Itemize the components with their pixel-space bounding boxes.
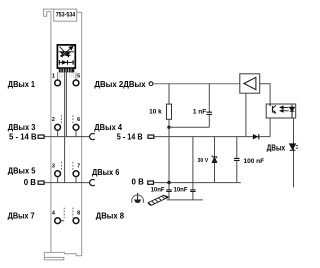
- diode D2: [253, 134, 258, 139]
- channel stub row2 left: [60, 115, 62, 124]
- protection diode D6 cathode bar: [67, 60, 69, 65]
- wire C1 bottom to junction: [169, 126, 209, 128]
- status LED D4 cathode bar: [60, 54, 64, 56]
- protective earth symbol: [132, 193, 144, 203]
- terminal 3: [55, 171, 61, 177]
- terminal 6 wire to rail: [75, 131, 77, 137]
- svg-text:ДВых 6: ДВых 6: [92, 168, 120, 177]
- channel stub row4 right: [72, 208, 74, 218]
- diode D2 cathode bar: [258, 134, 260, 139]
- chassis ground symbol: [148, 195, 168, 205]
- capacitor C1 top lead: [208, 84, 210, 112]
- internal bus wire A: [64, 72, 66, 182]
- module foot plate: [44, 257, 64, 260]
- wire amp bottom: [245, 93, 247, 136]
- module body outline left hook: [44, 9, 54, 252]
- electronics box U1: [57, 45, 75, 68]
- channel stub row3 left: [60, 162, 62, 171]
- output LED D3: [290, 144, 299, 150]
- module label box: [54, 9, 77, 21]
- module bottom edge: [51, 252, 82, 255]
- svg-text:10nF: 10nF: [174, 188, 188, 194]
- protection diode D6: [62, 60, 67, 65]
- svg-text:5: 5: [77, 74, 80, 80]
- status LED D5: [66, 52, 70, 55]
- node DI2: [149, 82, 153, 86]
- status LED D4 lead: [61, 55, 63, 57]
- svg-text:3: 3: [52, 164, 55, 170]
- terminal 6: [73, 124, 79, 130]
- fan-out wire to terminal 1: [57, 72, 59, 80]
- internal bus wire B: [65, 72, 67, 136]
- svg-text:100 nF: 100 nF: [244, 158, 265, 165]
- svg-text:ДВых 3: ДВых 3: [8, 123, 36, 132]
- external terminal 0V left: [38, 181, 44, 184]
- junction dot 0V rail: [167, 181, 170, 184]
- module body outline right edge: [77, 12, 82, 256]
- svg-text:2: 2: [52, 117, 55, 123]
- power jumper contact 0V: [90, 179, 95, 185]
- terminal 7 wire to rail: [75, 177, 77, 183]
- wire opto lower left pin: [269, 118, 271, 137]
- protection diode left tick: [59, 60, 61, 65]
- 5-14V rail left: [44, 136, 90, 138]
- external terminal 5-14V right: [148, 135, 154, 138]
- svg-text:5 - 14 В: 5 - 14 В: [117, 133, 143, 142]
- chassis line: [167, 199, 203, 201]
- protection diode wire: [59, 61, 74, 63]
- status LED D4: [60, 52, 64, 55]
- resistor R1 top lead: [168, 84, 170, 104]
- svg-text:1: 1: [52, 74, 55, 80]
- optocoupler U3 box: [266, 104, 296, 118]
- junction dot resistor bottom: [167, 126, 170, 129]
- svg-text:5 - 14 В: 5 - 14 В: [9, 133, 37, 142]
- svg-text:7: 7: [77, 164, 80, 170]
- svg-text:0 В: 0 В: [24, 178, 37, 187]
- 5-14V rail right: [154, 136, 270, 138]
- svg-text:8: 8: [77, 211, 80, 217]
- fan-out stub a: [58, 72, 60, 79]
- svg-text:0 В: 0 В: [132, 178, 145, 187]
- svg-text:ДВых 4: ДВых 4: [94, 123, 122, 132]
- channel stub row2 right: [72, 115, 74, 124]
- svg-text:10 k: 10 k: [149, 109, 162, 116]
- terminal 3 wire to rail: [57, 177, 59, 183]
- svg-text:10nF: 10nF: [151, 188, 165, 194]
- zener D1 top lead: [214, 137, 216, 157]
- fan-out stub c: [62, 72, 64, 77]
- terminal 7: [73, 171, 79, 177]
- capacitor C4 upper lead: [192, 137, 194, 190]
- optocoupler phototransistor: [270, 104, 276, 113]
- power jumper contact 5-14V: [90, 134, 95, 140]
- wire column A down: [168, 127, 170, 182]
- svg-text:ДВых 8: ДВых 8: [96, 211, 125, 220]
- svg-text:ДВых 1: ДВых 1: [8, 80, 36, 89]
- capacitor C1 1nF plates: [207, 112, 212, 114]
- terminal 4 stub wire: [61, 220, 64, 222]
- ribbon cable bundle: [59, 69, 75, 73]
- zener D1 30V: [212, 155, 217, 162]
- channel stub row4 left: [63, 208, 65, 218]
- status LED D5 cathode bar: [66, 54, 70, 56]
- capacitor C4 10nF plates: [190, 190, 195, 192]
- terminal 8: [73, 218, 79, 224]
- optocoupler light arrows: [280, 106, 289, 112]
- capacitor C1 bottom lead: [208, 115, 210, 128]
- external terminal 5-14V left: [38, 135, 44, 138]
- terminal 4: [55, 218, 61, 224]
- resistor R1 10k: [167, 104, 172, 119]
- wire DI2 to amplifier: [153, 83, 240, 85]
- fan-out stub f: [73, 72, 75, 79]
- fan-out stub d: [69, 72, 71, 77]
- external terminal 0V right: [148, 181, 154, 184]
- terminal 1: [55, 80, 61, 86]
- fan-out stub b: [60, 72, 62, 79]
- wire opto output down: [293, 118, 295, 187]
- capacitor C2 100nF plates: [234, 158, 240, 160]
- fan-out stub e: [71, 72, 73, 79]
- svg-text:ДВых: ДВых: [267, 144, 286, 153]
- capacitor C4 lower lead: [192, 192, 194, 200]
- status LED D5 lead: [67, 55, 69, 57]
- svg-text:ДВых 7: ДВых 7: [8, 211, 36, 220]
- svg-text:ДВых 2ДВых: ДВых 2ДВых: [94, 80, 146, 89]
- capacitor C2 bottom lead: [236, 161, 238, 183]
- fan-out wire to terminal 5: [75, 72, 77, 80]
- status LED anode rail: [59, 51, 74, 53]
- channel stub row3 right: [72, 162, 74, 171]
- 0V rail left: [44, 182, 90, 184]
- LED emission arrow up-right: [61, 46, 73, 57]
- terminal 5: [73, 80, 79, 86]
- capacitor C3 upper lead: [168, 183, 170, 190]
- op-amp U2 box: [240, 74, 260, 93]
- svg-text:753-534: 753-534: [56, 12, 76, 19]
- capacitor C2 top lead: [236, 137, 238, 159]
- capacitor C3 lower lead: [168, 192, 170, 200]
- zener D1 bottom lead: [214, 163, 216, 183]
- protection diode right tick: [72, 60, 74, 65]
- module foot hook: [44, 252, 51, 260]
- op-amp U2 triangle: [244, 77, 256, 89]
- svg-text:6: 6: [77, 117, 80, 123]
- svg-text:1 nF: 1 nF: [193, 109, 206, 116]
- optocoupler LED: [290, 105, 295, 118]
- terminal 8 stub wire: [72, 220, 74, 222]
- LED emission arrow down-right: [60, 47, 69, 57]
- 0V rail right: [154, 182, 241, 184]
- resistor R1 bottom lead: [168, 119, 170, 127]
- terminal 2: [55, 124, 61, 130]
- svg-text:4: 4: [52, 211, 55, 217]
- svg-text:ДВых 5: ДВых 5: [8, 166, 36, 175]
- terminal 2 wire to rail: [57, 131, 59, 137]
- wire amp output: [260, 84, 270, 104]
- capacitor C3 10nF plates: [166, 190, 171, 192]
- svg-text:30 V: 30 V: [198, 158, 209, 164]
